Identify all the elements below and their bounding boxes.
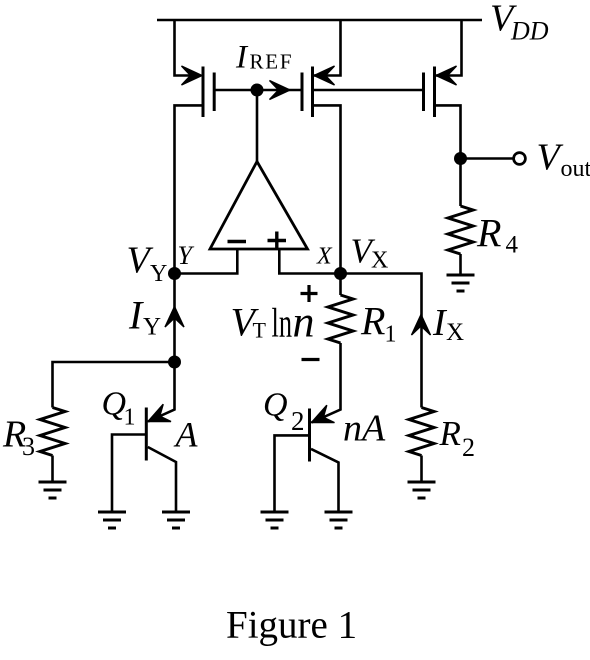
op-amp U1 triangle (210, 162, 308, 250)
resistor R4 zigzag (448, 206, 473, 254)
svg-text:T: T (253, 318, 267, 343)
wire Q2 collector to ground (311, 449, 339, 512)
wire M1 source drop from rail (175, 20, 191, 76)
svg-text:Y: Y (143, 314, 161, 341)
ground under R2 (408, 482, 436, 498)
svg-text:REF: REF (250, 50, 294, 74)
transistor M2 channel bar (311, 67, 314, 118)
wire R2 bottom to ground (420, 456, 423, 483)
node X junction dot (334, 267, 347, 280)
svg-text:3: 3 (22, 432, 35, 461)
ground under Q1 collector (162, 512, 190, 528)
op-amp plus sign (268, 232, 287, 250)
node Vout junction dot (454, 152, 467, 165)
wire op-amp plus input to node X (279, 249, 340, 274)
wire Q1 base to ground (112, 435, 146, 513)
wire M2 drain down to node X (314, 105, 341, 295)
svg-text:R: R (360, 299, 385, 344)
svg-text:n: n (293, 298, 315, 347)
wire gate line M1 to M2 with IREF node (214, 89, 301, 92)
svg-text:Figure 1: Figure 1 (226, 604, 357, 647)
svg-text:I: I (128, 293, 144, 338)
arrow IY current (165, 307, 184, 328)
svg-text:X: X (316, 244, 333, 270)
transistor M3 channel bar (433, 67, 436, 118)
resistor R1 zigzag (328, 295, 353, 343)
ground under Q2 collector (325, 512, 353, 528)
svg-text:I: I (235, 40, 249, 76)
wire M2 source to rail (314, 20, 341, 76)
ground under Q1 base (98, 512, 126, 528)
arrow Q2 emitter (312, 405, 335, 422)
transistor M3 gate bar (422, 73, 425, 112)
plus sign above R1 (301, 285, 318, 302)
wire M1 drain to node Y column (175, 105, 204, 362)
wire R4 bottom to ground (459, 254, 462, 275)
svg-text:R: R (476, 211, 501, 256)
terminal Vout open circle (514, 153, 526, 165)
ground under Q2 base (261, 512, 289, 528)
svg-text:nA: nA (343, 408, 386, 450)
arrow M3 source (436, 66, 457, 85)
ground under R4 (447, 275, 475, 291)
wire Q2 base to ground (275, 435, 310, 512)
resistor R3 zigzag (40, 408, 65, 456)
svg-text:out: out (561, 156, 590, 182)
svg-text:1: 1 (124, 405, 136, 431)
transistor Q1 base bar (145, 408, 148, 461)
wire node to R3 branch (53, 362, 175, 408)
arrow IX current (412, 315, 431, 336)
transistor Q2 base bar (308, 409, 311, 462)
wire Vout node to terminal (461, 157, 513, 160)
svg-text:Y: Y (178, 241, 195, 270)
wire M3 source to rail (436, 20, 462, 76)
svg-text:ln: ln (272, 300, 293, 346)
transistor M1 channel bar (202, 67, 205, 118)
wire R3 bottom to ground (51, 456, 54, 483)
wire op-amp minus input to node Y (175, 249, 238, 274)
arrow M1 source (182, 66, 203, 85)
node IREF junction dot (251, 84, 264, 97)
svg-text:X: X (446, 319, 464, 346)
svg-text:V: V (537, 137, 564, 179)
svg-text:X: X (371, 248, 388, 274)
svg-text:Q: Q (263, 387, 288, 424)
svg-text:A: A (174, 415, 199, 455)
svg-text:R: R (439, 414, 461, 453)
op-amp minus sign (228, 240, 247, 243)
node R3 branch junction dot (168, 356, 181, 369)
wire gate line M2 to M3 (314, 89, 423, 92)
arrow M2 source (314, 66, 335, 85)
ground under R3 (39, 482, 67, 498)
svg-text:2: 2 (291, 406, 305, 436)
resistor R2 zigzag (409, 408, 434, 456)
transistor M2 gate bar (301, 73, 304, 112)
transistor M1 gate bar (213, 73, 216, 112)
wire Q1 collector to ground (148, 447, 176, 512)
svg-text:4: 4 (506, 232, 519, 259)
svg-text:2: 2 (462, 433, 475, 462)
wire node X to R2 branch (341, 274, 422, 408)
svg-text:Y: Y (150, 261, 167, 287)
wire M3 drain down to Vout node (436, 105, 461, 206)
arrow IREF current (270, 81, 291, 100)
node Y junction dot (168, 267, 181, 280)
svg-text:1: 1 (385, 322, 397, 348)
wire VDD rail (157, 19, 482, 22)
wire Q1 emitter (148, 362, 175, 422)
svg-text:Q: Q (102, 386, 127, 423)
minus sign below R1 (302, 358, 320, 361)
svg-text:DD: DD (510, 17, 549, 46)
wire R1 bottom to Q2 emitter (312, 343, 341, 423)
wire IREF node down to op-amp output (256, 90, 259, 163)
arrow Q1 emitter (148, 404, 171, 421)
